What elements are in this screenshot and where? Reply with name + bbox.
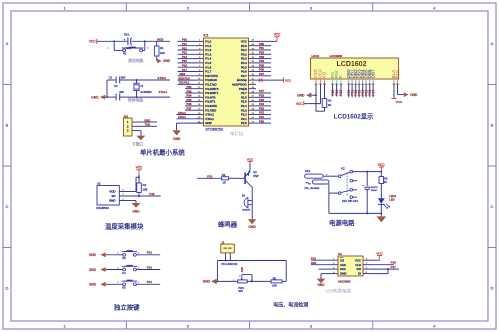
svg-text:C1: C1	[109, 76, 113, 80]
wire	[256, 105, 271, 107]
wire	[185, 92, 196, 94]
wire	[156, 56, 158, 61]
wire	[185, 96, 196, 98]
push button K4	[123, 268, 126, 271]
potentiometer PW1	[238, 280, 248, 283]
wire	[321, 273, 330, 275]
wire bottom rail	[329, 212, 381, 214]
ground	[100, 267, 105, 272]
wire	[256, 49, 271, 51]
wire XTAL1 net	[105, 96, 115, 98]
IC1 pin 9 RST/VPD	[196, 75, 204, 77]
svg-text:1: 1	[63, 5, 66, 10]
svg-text:单片机: 单片机	[230, 130, 244, 137]
IC1 pin 2 P1.1	[196, 45, 204, 47]
wire	[256, 53, 271, 55]
svg-text:VCC: VCC	[378, 163, 385, 167]
node	[106, 96, 108, 98]
svg-text:R2: R2	[328, 99, 332, 103]
wire emitter	[249, 163, 251, 169]
svg-text:R1: R1	[160, 46, 164, 50]
wire	[132, 40, 170, 42]
wire	[141, 121, 157, 123]
svg-text:下载口: 下载口	[132, 141, 144, 146]
svg-text:LED1: LED1	[389, 194, 396, 198]
IC1 pin 24 P2.3	[249, 109, 257, 111]
U3 pin CH1	[330, 268, 339, 270]
svg-text:+: +	[363, 185, 365, 187]
svg-text:VCC: VCC	[285, 78, 292, 82]
resistor R1	[156, 41, 158, 46]
svg-text:独立按键: 独立按键	[113, 302, 140, 311]
node	[366, 212, 368, 214]
svg-text:GND: GND	[317, 283, 325, 287]
wire	[178, 71, 197, 73]
svg-text:P20: P20	[259, 119, 264, 123]
J1 pin 1	[225, 253, 227, 261]
svg-text:GND: GND	[410, 93, 418, 97]
svg-text:P27: P27	[339, 90, 343, 96]
svg-text:2: 2	[138, 282, 140, 284]
ground	[100, 282, 105, 287]
IC1 pin 29 PSEN	[249, 88, 257, 90]
svg-text:A/D转换电路: A/D转换电路	[325, 288, 351, 295]
svg-text:3: 3	[310, 323, 313, 328]
svg-text:CS: CS	[340, 258, 344, 262]
IC1 pin 1 P1.0	[196, 40, 204, 42]
wire	[185, 88, 196, 90]
U3 pin CH0	[330, 264, 339, 266]
IC1 pin 27 P2.6	[249, 96, 257, 98]
svg-text:LCD1602显示: LCD1602显示	[334, 112, 374, 121]
svg-text:GND: GND	[340, 272, 346, 276]
wire	[358, 84, 360, 98]
wire	[128, 200, 136, 202]
J1 pin 2	[229, 253, 231, 261]
resistor R6	[222, 177, 229, 180]
svg-text:LCD1602: LCD1602	[337, 61, 367, 68]
svg-text:VCC: VCC	[274, 33, 281, 37]
svg-text:RXD P3.0: RXD P3.0	[179, 77, 191, 80]
IC1 pin 25 P2.4	[249, 105, 257, 107]
wire	[256, 122, 271, 124]
svg-text:4: 4	[433, 323, 436, 328]
IC1 pin 32 P0.7	[249, 75, 257, 77]
wire	[136, 269, 160, 271]
svg-text:2: 2	[147, 48, 149, 50]
svg-text:C2: C2	[114, 84, 118, 88]
wire	[140, 131, 142, 136]
svg-text:C: C	[491, 204, 494, 209]
svg-text:A: A	[491, 41, 494, 46]
svg-text:P23: P23	[207, 174, 212, 178]
svg-text:Pin HDR1X2: Pin HDR1X2	[222, 262, 238, 266]
svg-text:IC1: IC1	[204, 34, 209, 38]
svg-text:JP1: JP1	[124, 114, 129, 118]
svg-text:BLK: BLK	[395, 69, 400, 79]
crystal Y1	[136, 80, 138, 83]
IC1 pin 16 P3.6/WR	[196, 105, 204, 107]
wire bottom	[217, 280, 237, 282]
connector J1 Pin HDR1X2	[221, 244, 235, 253]
svg-text:蜂鸣器: 蜂鸣器	[218, 219, 238, 228]
wire	[348, 84, 350, 98]
wire	[324, 107, 326, 111]
svg-text:B1: B1	[242, 194, 246, 198]
diode LED1	[378, 198, 385, 204]
svg-text:RC1: RC1	[124, 33, 130, 37]
sensor U2 DS18B20 body	[97, 186, 119, 206]
svg-text:VCC: VCC	[247, 158, 254, 162]
wire	[106, 283, 123, 285]
svg-text:B: B	[6, 123, 9, 128]
ground	[100, 95, 105, 100]
capacitor C2	[115, 94, 117, 101]
svg-text:ADC0832: ADC0832	[338, 280, 351, 284]
svg-text:U3: U3	[338, 252, 342, 256]
wire	[256, 92, 271, 94]
resistor R5	[271, 280, 282, 283]
wire	[178, 83, 197, 85]
wire	[229, 177, 245, 179]
svg-text:GND: GND	[91, 95, 99, 99]
wire	[256, 45, 271, 47]
svg-text:30P: 30P	[119, 90, 124, 94]
IC1 pin 21 P2.0	[249, 122, 257, 124]
svg-text:GND: GND	[132, 210, 140, 214]
U3 pin DI	[363, 273, 372, 275]
svg-text:TXD: TXD	[145, 123, 151, 127]
wire	[256, 109, 271, 111]
wire	[178, 40, 197, 42]
IC1 pin 5 P1.4	[196, 58, 204, 60]
svg-text:1: 1	[117, 253, 119, 255]
wire	[185, 105, 196, 107]
svg-text:GND: GND	[109, 199, 115, 203]
svg-text:XTAL1: XTAL1	[159, 90, 168, 94]
svg-text:RES: RES	[157, 37, 163, 41]
wire	[340, 84, 342, 97]
wire left	[216, 261, 218, 282]
svg-text:2: 2	[239, 275, 241, 277]
svg-text:P26: P26	[335, 90, 339, 96]
wire XTAL2 net	[107, 79, 116, 81]
node	[251, 280, 253, 282]
IC1 pin 11 P3.1TxD	[196, 83, 204, 85]
IC1 pin 18 XTAL2	[196, 114, 204, 116]
U3 pin DO	[363, 268, 372, 270]
wire	[177, 114, 197, 116]
wire	[144, 41, 146, 50]
IC1 pin 14 P3.4/T0	[196, 96, 204, 98]
svg-text:4: 4	[433, 5, 436, 10]
capacitor C3 electrolytic	[364, 186, 370, 188]
push button K1	[123, 49, 126, 52]
svg-text:DO: DO	[357, 267, 362, 271]
svg-text:LCD1: LCD1	[312, 54, 320, 58]
resistor R3	[379, 177, 384, 184]
svg-text:GND: GND	[173, 137, 181, 141]
ground	[100, 252, 105, 257]
wire	[372, 264, 395, 266]
wire	[304, 103, 321, 105]
U3 pin CS	[330, 259, 339, 261]
wire VSS	[315, 84, 317, 112]
ground	[317, 279, 326, 284]
svg-text:XTAL2: XTAL2	[178, 111, 186, 115]
svg-text:10K: 10K	[160, 51, 165, 55]
svg-text:PNP: PNP	[253, 174, 259, 178]
power VCC	[276, 37, 278, 42]
svg-text:10K: 10K	[272, 284, 277, 288]
transistor Q1	[244, 173, 246, 185]
svg-text:CLK: CLK	[355, 263, 361, 267]
IC1 pin 10 P3.0RxD	[196, 79, 204, 81]
node	[380, 171, 382, 173]
svg-text:VCC: VCC	[296, 102, 303, 106]
wire	[185, 101, 196, 103]
svg-text:100uF: 100uF	[371, 190, 378, 192]
wire BLK	[397, 84, 399, 95]
svg-text:ELEC1: ELEC1	[371, 187, 379, 189]
ADC U3 ADC0832 body	[338, 256, 363, 276]
power VCC	[138, 170, 140, 175]
wire	[256, 62, 271, 64]
wire	[247, 280, 271, 282]
svg-text:RES: RES	[180, 72, 186, 76]
svg-text:2: 2	[187, 5, 190, 10]
node	[216, 280, 218, 282]
svg-text:DC_Socket: DC_Socket	[305, 186, 320, 190]
wire	[311, 264, 330, 266]
node	[113, 40, 115, 42]
U3 CS overline	[340, 256, 343, 258]
svg-text:P37: P37	[187, 107, 192, 111]
IC1 pin 28 P2.7	[249, 92, 257, 94]
push button K5	[123, 283, 126, 286]
wire	[105, 96, 107, 98]
IC1 pin 34 P0.5	[249, 66, 257, 68]
svg-text:GND: GND	[89, 253, 97, 257]
svg-text:单片机最小系统: 单片机最小系统	[140, 148, 185, 157]
svg-text:1: 1	[63, 323, 66, 328]
svg-text:GND: GND	[89, 268, 97, 272]
IC1 pin 40 VCC	[249, 40, 257, 42]
svg-text:K4: K4	[122, 271, 126, 275]
JP1 pin 1	[132, 121, 141, 123]
svg-text:GND: GND	[297, 93, 305, 97]
wire top rail	[353, 171, 382, 173]
JP1 pin 2	[132, 125, 141, 127]
svg-text:Y1: Y1	[140, 84, 144, 88]
wire	[177, 118, 197, 120]
node	[138, 195, 140, 197]
node	[138, 176, 140, 178]
IC1 pin 6 P1.5	[196, 62, 204, 64]
capacitor C1	[115, 77, 117, 84]
wire VO	[324, 84, 326, 99]
connector JP1	[124, 118, 133, 136]
svg-text:CH1: CH1	[340, 267, 346, 271]
svg-text:3K: 3K	[328, 103, 331, 107]
ground	[404, 92, 409, 97]
wire	[136, 176, 139, 178]
svg-text:1: 1	[107, 48, 109, 50]
svg-text:STC89C52: STC89C52	[206, 128, 223, 132]
resistor R4	[137, 183, 142, 192]
wire collector	[251, 186, 254, 188]
wire	[136, 254, 160, 256]
svg-text:1: 1	[117, 282, 119, 284]
svg-text:P10: P10	[149, 192, 154, 196]
no-ERC marker	[259, 78, 263, 82]
svg-text:Q1: Q1	[253, 170, 257, 174]
svg-text:P22: P22	[147, 251, 152, 255]
node	[144, 40, 146, 42]
wire	[106, 269, 123, 271]
wire	[113, 41, 115, 50]
IC1 pin 30 ALE/PROG	[249, 83, 257, 85]
svg-text:LED: LED	[389, 197, 394, 201]
svg-text:C: C	[6, 204, 9, 209]
IC1 pin 36 P0.3	[249, 58, 257, 60]
IC1 pin 12 P3.2/INT0	[196, 88, 204, 90]
node	[315, 94, 317, 96]
svg-text:P23: P23	[147, 265, 152, 269]
svg-text:P24: P24	[147, 280, 152, 284]
IC IC1 STC89C52 microcontroller	[204, 38, 249, 126]
IC1 pin 35 P0.4	[249, 62, 257, 64]
power VCC	[303, 101, 305, 105]
IC1 pin 7 P1.6	[196, 66, 204, 68]
svg-text:R4: R4	[143, 183, 147, 187]
wire right	[282, 280, 286, 282]
svg-text:E: E	[338, 75, 343, 78]
svg-text:时钟电路: 时钟电路	[128, 98, 143, 103]
U3 pin GND	[330, 273, 339, 275]
svg-text:11.0592M: 11.0592M	[140, 90, 151, 94]
wire	[332, 84, 334, 97]
wire	[178, 45, 197, 47]
ground	[380, 213, 382, 216]
wire	[256, 75, 271, 77]
wire	[311, 259, 330, 261]
wire	[256, 118, 271, 120]
svg-text:U2: U2	[97, 182, 101, 186]
wire BLA	[393, 84, 395, 99]
wire	[256, 101, 271, 103]
svg-text:R3: R3	[384, 177, 388, 181]
wire	[106, 254, 123, 256]
wire	[311, 94, 316, 96]
svg-text:K1: K1	[123, 52, 127, 56]
U3 pin CLK	[363, 264, 372, 266]
svg-text:GND: GND	[163, 59, 171, 63]
svg-text:R6: R6	[222, 173, 226, 177]
svg-text:DC1: DC1	[305, 169, 311, 173]
svg-text:电压、电流检测: 电压、电流检测	[273, 302, 308, 309]
svg-text:VDD: VDD	[109, 190, 115, 194]
svg-text:GND: GND	[89, 283, 97, 287]
wire	[256, 79, 284, 81]
svg-text:DS18B20: DS18B20	[96, 206, 109, 210]
svg-text:B: B	[491, 123, 494, 128]
wire	[138, 174, 140, 183]
wire	[372, 268, 400, 270]
svg-text:AD0: AD0	[311, 261, 317, 265]
svg-text:DI: DI	[358, 272, 361, 276]
IC1 pin 38 P0.1	[249, 49, 257, 51]
resistor R2	[322, 99, 327, 108]
svg-text:XTAL2: XTAL2	[157, 76, 166, 80]
node	[136, 96, 138, 98]
svg-text:GND: GND	[203, 280, 211, 284]
wire	[178, 66, 197, 68]
svg-text:VCC: VCC	[89, 40, 96, 44]
wire	[178, 62, 197, 64]
wire	[256, 71, 271, 73]
node	[366, 171, 368, 173]
IC1 pin 4 P1.3	[196, 53, 204, 55]
wire	[323, 175, 338, 177]
wire	[372, 259, 380, 261]
svg-text:1K: 1K	[223, 180, 226, 184]
ground	[172, 130, 181, 135]
power VCC	[283, 78, 285, 83]
IC1 pin 26 P2.5	[249, 101, 257, 103]
IC1 pin 15 P3.5/T1	[196, 101, 204, 103]
ground	[211, 279, 216, 284]
wire base	[197, 177, 222, 179]
svg-text:XTAL1: XTAL1	[178, 115, 186, 119]
wire	[256, 114, 271, 116]
wire	[136, 283, 160, 285]
wire	[97, 40, 128, 42]
wire	[256, 40, 277, 42]
svg-text:BUZZER: BUZZER	[242, 209, 250, 211]
wire	[178, 58, 197, 60]
wire	[336, 84, 338, 97]
svg-text:D: D	[6, 286, 9, 291]
wire I/O net	[128, 195, 161, 197]
svg-text:电源电路: 电源电路	[329, 218, 355, 227]
svg-text:1: 1	[117, 267, 119, 269]
IC1 pin 33 P0.6	[249, 71, 257, 73]
svg-text:1K: 1K	[384, 180, 387, 184]
power VCC	[96, 39, 98, 44]
wire	[369, 84, 371, 98]
wire	[372, 84, 374, 98]
wire	[256, 58, 271, 60]
IC1 pin 17 P3.7/RD	[196, 109, 204, 111]
buzzer B1	[244, 198, 248, 208]
svg-text:A: A	[6, 41, 9, 46]
svg-text:2: 2	[138, 253, 140, 255]
svg-text:VCC: VCC	[136, 166, 143, 170]
wire	[387, 269, 389, 274]
ground	[131, 203, 140, 208]
push button K3	[123, 253, 126, 256]
wire	[319, 268, 330, 270]
svg-text:VCC: VCC	[355, 258, 361, 262]
IC1 pin 22 P2.1	[249, 118, 257, 120]
wire	[380, 184, 382, 199]
svg-text:P2.0: P2.0	[241, 121, 247, 125]
node	[136, 79, 138, 81]
node	[380, 212, 382, 214]
svg-text:复位电路: 复位电路	[128, 58, 143, 63]
LCD module LCD1 LCD1602 body	[311, 58, 399, 79]
